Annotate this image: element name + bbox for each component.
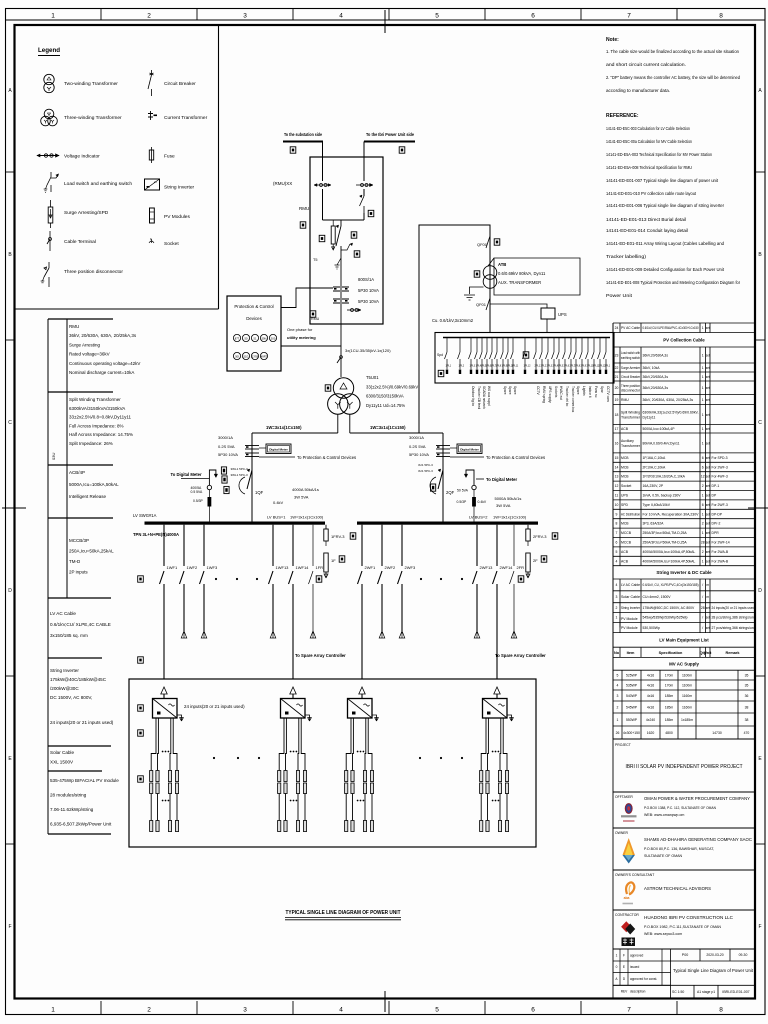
svg-text:Circuit Breaker: Circuit Breaker bbox=[621, 375, 641, 379]
svg-text:50f: 50f bbox=[235, 355, 239, 359]
svg-text:0: 0 bbox=[616, 965, 618, 969]
svg-text:28 pcs/string,386 strings/unit: 28 pcs/string,386 strings/unit bbox=[712, 616, 756, 620]
svg-text:Spare: Spare bbox=[508, 386, 512, 395]
svg-text:/: / bbox=[702, 626, 703, 630]
svg-text:2QF: 2QF bbox=[446, 490, 455, 495]
svg-text:12: 12 bbox=[615, 484, 619, 488]
svg-text:REV: REV bbox=[621, 990, 628, 994]
svg-text:1: 1 bbox=[702, 427, 704, 431]
svg-text:1W=3x1x(1Cx150): 1W=3x1x(1Cx150) bbox=[370, 425, 406, 430]
svg-text:1F: 1F bbox=[331, 558, 336, 563]
svg-text:13: 13 bbox=[615, 475, 619, 479]
svg-text:14141-ED-E01-007 Typical singl: 14141-ED-E01-007 Typical single line dia… bbox=[606, 178, 719, 184]
svg-text:T5: T5 bbox=[313, 258, 317, 262]
svg-text:8: 8 bbox=[719, 1007, 723, 1014]
svg-text:ASTROM TECHNICAL ADVISORS: ASTROM TECHNICAL ADVISORS bbox=[644, 886, 711, 891]
svg-text:PV Collection Cable: PV Collection Cable bbox=[663, 337, 705, 342]
svg-text:4: 4 bbox=[616, 583, 618, 587]
svg-text:2: 2 bbox=[702, 550, 704, 554]
svg-text:14: 14 bbox=[615, 465, 619, 469]
svg-text:80kVA,0.69/0.4kV,Dyn11: 80kVA,0.69/0.4kV,Dyn11 bbox=[643, 441, 680, 445]
svg-text:1WF14: 1WF14 bbox=[296, 565, 310, 570]
svg-text:MCB: MCB bbox=[621, 522, 629, 526]
svg-text:1: 1 bbox=[51, 13, 55, 20]
svg-text:disconnector: disconnector bbox=[621, 389, 641, 393]
svg-text:5000A,Icu=100kA,50kAL: 5000A,Icu=100kA,50kAL bbox=[69, 482, 119, 487]
svg-text:540WP: 540WP bbox=[626, 694, 638, 698]
svg-text:0.5/3P: 0.5/3P bbox=[193, 499, 204, 503]
svg-text:Unit: Unit bbox=[704, 651, 712, 655]
svg-text:2F: 2F bbox=[533, 558, 538, 563]
svg-text:33(±2x2.5%)/0.69kV/0.69kV: 33(±2x2.5%)/0.69kV/0.69kV bbox=[366, 384, 418, 389]
svg-text:1PL1: 1PL1 bbox=[446, 365, 452, 368]
svg-text:2P,10A,C,10kA: 2P,10A,C,10kA bbox=[643, 465, 666, 469]
svg-text:3W 5VA: 3W 5VA bbox=[294, 495, 309, 500]
svg-text:RMU spring: RMU spring bbox=[542, 386, 546, 403]
svg-text:LV BUS=1: LV BUS=1 bbox=[267, 515, 286, 520]
svg-text:4: 4 bbox=[339, 1007, 343, 1014]
svg-text:0.4kV: 0.4kV bbox=[478, 500, 487, 504]
svg-text:Load switch with: Load switch with bbox=[621, 351, 640, 355]
svg-text:PV Modules: PV Modules bbox=[164, 214, 190, 220]
svg-text:0.5 5VA: 0.5 5VA bbox=[191, 490, 204, 494]
svg-text:14141-ED-E01-008 Typical Prote: 14141-ED-E01-008 Typical Protection and … bbox=[606, 280, 740, 286]
svg-text:16A,230V, 2P: 16A,230V, 2P bbox=[643, 484, 664, 488]
svg-text:set: set bbox=[706, 559, 710, 563]
svg-text:WS aux suppl: WS aux suppl bbox=[487, 386, 491, 406]
svg-text:185m: 185m bbox=[665, 694, 674, 698]
svg-text:DP-DP: DP-DP bbox=[712, 512, 723, 516]
svg-text:3: 3 bbox=[243, 13, 247, 20]
svg-text:1PL11: 1PL11 bbox=[512, 365, 519, 368]
svg-text:Spare: Spare bbox=[576, 386, 580, 395]
svg-text:7: 7 bbox=[616, 531, 618, 535]
svg-text:To Spare Array Controller: To Spare Array Controller bbox=[495, 653, 546, 658]
svg-text:CCTV: CCTV bbox=[536, 386, 540, 396]
svg-text:525WP: 525WP bbox=[626, 673, 638, 677]
svg-text:DPR: DPR bbox=[712, 531, 720, 535]
svg-text:ACB: ACB bbox=[621, 427, 629, 431]
svg-text:OWNER: OWNER bbox=[615, 831, 629, 835]
svg-text:19: 19 bbox=[615, 398, 619, 402]
svg-text:1PL2: 1PL2 bbox=[459, 365, 465, 368]
svg-text:UPS supply: UPS supply bbox=[548, 386, 552, 403]
svg-text:set: set bbox=[706, 616, 710, 620]
svg-text:1: 1 bbox=[702, 366, 704, 370]
svg-text:51G: 51G bbox=[244, 355, 249, 359]
svg-text:175kW@40C/185kW@45C: 175kW@40C/185kW@45C bbox=[50, 677, 107, 682]
svg-text:5000A 50kA/1s: 5000A 50kA/1s bbox=[495, 496, 522, 501]
svg-text:545wp/535Wp/530Wp/525Wp: 545wp/535Wp/530Wp/525Wp bbox=[643, 616, 688, 620]
svg-text:2020-03-20: 2020-03-20 bbox=[706, 953, 723, 957]
svg-text:MCCB: MCCB bbox=[621, 531, 632, 535]
svg-text:7: 7 bbox=[627, 1007, 631, 1014]
svg-text:Item: Item bbox=[627, 651, 635, 655]
svg-text:set: set bbox=[706, 353, 710, 357]
svg-text:4x240: 4x240 bbox=[646, 718, 655, 722]
svg-text:59N: 59N bbox=[262, 337, 267, 341]
svg-text:QF01: QF01 bbox=[476, 302, 487, 307]
svg-text:24 inputs(20 or 21 inputs used: 24 inputs(20 or 21 inputs used) bbox=[184, 704, 245, 709]
svg-text:1160m: 1160m bbox=[682, 694, 692, 698]
svg-text:Sockets: Sockets bbox=[554, 386, 558, 398]
svg-text:2: 2 bbox=[147, 1007, 151, 1014]
svg-text:4000A/5000A,Icu=100kA,4P,50kAL: 4000A/5000A,Icu=100kA,4P,50kAL bbox=[643, 559, 696, 563]
svg-text:6: 6 bbox=[616, 541, 618, 545]
svg-text:UPS: UPS bbox=[621, 494, 629, 498]
svg-text:set: set bbox=[706, 512, 710, 516]
svg-text:set: set bbox=[706, 503, 710, 507]
svg-text:D: D bbox=[758, 588, 762, 594]
svg-text:For 2WA-B: For 2WA-B bbox=[712, 550, 729, 554]
svg-text:6: 6 bbox=[702, 465, 704, 469]
svg-text:22: 22 bbox=[615, 366, 619, 370]
svg-text:Voltage Indicator: Voltage Indicator bbox=[64, 154, 100, 160]
svg-text:Half Across Impedance: 14.75%: Half Across Impedance: 14.75% bbox=[69, 432, 133, 437]
svg-text:SPD: SPD bbox=[621, 503, 629, 507]
svg-text:5000A,Icu=100kA,4P: 5000A,Icu=100kA,4P bbox=[643, 427, 676, 431]
svg-text:D: D bbox=[8, 588, 12, 594]
svg-text:12: 12 bbox=[701, 475, 705, 479]
svg-text:set: set bbox=[706, 465, 710, 469]
svg-text:utility metering: utility metering bbox=[287, 335, 316, 340]
svg-text:Surge Arresting/SPD: Surge Arresting/SPD bbox=[64, 210, 109, 216]
svg-text:To Digital Meter: To Digital Meter bbox=[171, 472, 202, 477]
svg-text:One phase for: One phase for bbox=[287, 327, 313, 332]
svg-text:09-30: 09-30 bbox=[739, 953, 748, 957]
svg-text:23: 23 bbox=[615, 353, 619, 357]
svg-text:6: 6 bbox=[702, 503, 704, 507]
svg-text:1FR: 1FR bbox=[316, 565, 324, 570]
svg-text:To Spare Array Controller: To Spare Array Controller bbox=[295, 653, 346, 658]
svg-text:6: 6 bbox=[702, 456, 704, 460]
svg-text:14141-ED-E01-006 Typical singl: 14141-ED-E01-006 Typical single line dia… bbox=[606, 203, 724, 209]
svg-text:4: 4 bbox=[339, 13, 343, 20]
svg-text:1100m: 1100m bbox=[682, 673, 692, 677]
svg-text:550WP: 550WP bbox=[626, 718, 638, 722]
svg-text:7.06-11.62kWp/string: 7.06-11.62kWp/string bbox=[50, 807, 94, 812]
svg-text:1: 1 bbox=[616, 616, 618, 620]
svg-text:LV AC Cable: LV AC Cable bbox=[621, 583, 640, 587]
svg-text:2: 2 bbox=[147, 13, 151, 20]
svg-text:OFFTAKER: OFFTAKER bbox=[615, 795, 633, 799]
svg-text:/200kW@30C: /200kW@30C bbox=[50, 686, 79, 691]
svg-text:3U1 5PC-3: 3U1 5PC-3 bbox=[418, 463, 433, 467]
svg-text:description: description bbox=[630, 990, 646, 994]
svg-text:535-475Wp BIFACIAL PV module: 535-475Wp BIFACIAL PV module bbox=[50, 778, 119, 783]
svg-text:14141-ED-E5C-003 Calculation f: 14141-ED-E5C-003 Calculation for LV Cabl… bbox=[606, 126, 690, 132]
svg-text:set: set bbox=[706, 427, 710, 431]
svg-text:2FRV-3: 2FRV-3 bbox=[533, 534, 547, 539]
svg-text:MCCB/3P: MCCB/3P bbox=[69, 538, 89, 543]
svg-text:Specification: Specification bbox=[659, 651, 683, 655]
svg-text:14141-ED-E01-013 Direct Burial: 14141-ED-E01-013 Direct Burial detail bbox=[606, 217, 686, 223]
svg-text:2WF14: 2WF14 bbox=[500, 565, 514, 570]
svg-text:3: 3 bbox=[617, 694, 619, 698]
svg-text:F: F bbox=[758, 924, 761, 930]
svg-text:Load switch and earthing switc: Load switch and earthing switch bbox=[64, 181, 132, 187]
svg-text:For 4WF-3: For 4WF-3 bbox=[712, 475, 728, 479]
svg-text:535WP: 535WP bbox=[626, 683, 638, 687]
svg-text:1: 1 bbox=[702, 494, 704, 498]
svg-text:14141-ED-E01-014 Conduit layin: 14141-ED-E01-014 Conduit laying detail bbox=[606, 228, 688, 234]
svg-text:5P30 10VA: 5P30 10VA bbox=[358, 288, 379, 293]
svg-text:Typical Single Line Diagram of: Typical Single Line Diagram of Power Uni… bbox=[673, 968, 754, 973]
svg-text:AUX. TRANSFORMER: AUX. TRANSFORMER bbox=[498, 280, 541, 285]
svg-text:0.6/0.69kV 80kVA, Dyn11: 0.6/0.69kV 80kVA, Dyn11 bbox=[498, 271, 546, 276]
svg-text:CU=4mm2, 1500V: CU=4mm2, 1500V bbox=[643, 595, 672, 599]
svg-text:250A/3P,Icu=50kA,TM-D,25A: 250A/3P,Icu=50kA,TM-D,25A bbox=[643, 531, 688, 535]
svg-text:36kV,20/630A,3s: 36kV,20/630A,3s bbox=[643, 375, 669, 379]
svg-text:27 pcs/string,366 strings/unit: 27 pcs/string,366 strings/unit bbox=[712, 626, 756, 630]
svg-text:Socket: Socket bbox=[164, 241, 179, 247]
svg-text:1P/2P,6/10A,16/20A,C,10kA: 1P/2P,6/10A,16/20A,C,10kA bbox=[643, 475, 686, 479]
svg-text:3WL1 5PC-3: 3WL1 5PC-3 bbox=[231, 467, 249, 471]
svg-text:1: 1 bbox=[702, 559, 704, 563]
svg-text:OWNER'S CONSULTANT: OWNER'S CONSULTANT bbox=[615, 873, 654, 877]
svg-text:WEB: www.omanpwp.om: WEB: www.omanpwp.om bbox=[644, 813, 684, 817]
svg-text:Spar: Spar bbox=[600, 386, 604, 394]
svg-text:Fans su: Fans su bbox=[594, 386, 598, 398]
svg-text:Dy11y11 Ud=14.75%: Dy11y11 Ud=14.75% bbox=[366, 403, 405, 408]
svg-text:0.6/1kV,CU/XLPE/SWA/PVC-4Cx300: 0.6/1kV,CU/XLPE/SWA/PVC-4Cx300+1Cx150 bbox=[643, 326, 699, 330]
svg-text:PV AC Cable: PV AC Cable bbox=[621, 326, 640, 330]
svg-text:ACB: ACB bbox=[621, 550, 629, 554]
svg-text:MCB: MCB bbox=[621, 465, 629, 469]
svg-text:800S/1A: 800S/1A bbox=[358, 277, 374, 282]
svg-text:6300/3150/3150kVA: 6300/3150/3150kVA bbox=[366, 394, 404, 399]
svg-text:20: 20 bbox=[615, 386, 619, 390]
svg-text:CONTRACTOR: CONTRACTOR bbox=[615, 913, 639, 917]
svg-text:1P,16A,C,10kA: 1P,16A,C,10kA bbox=[643, 456, 666, 460]
svg-text:7: 7 bbox=[627, 13, 631, 20]
svg-text:For 2WA-B: For 2WA-B bbox=[712, 559, 729, 563]
svg-text:3U1 5PC-3: 3U1 5PC-3 bbox=[418, 469, 433, 473]
svg-text:set: set bbox=[706, 326, 710, 330]
svg-text:1QF: 1QF bbox=[255, 490, 264, 495]
svg-text:35: 35 bbox=[745, 683, 749, 687]
svg-text:36kV, 10kA: 36kV, 10kA bbox=[643, 366, 661, 370]
svg-text:TYPICAL SINGLE LINE DIAGRAM OF: TYPICAL SINGLE LINE DIAGRAM OF POWER UNI… bbox=[286, 910, 401, 916]
svg-text:0.2S 5VA: 0.2S 5VA bbox=[218, 444, 235, 449]
svg-text:1WF1: 1WF1 bbox=[167, 565, 178, 570]
svg-text:RMU: RMU bbox=[299, 206, 309, 211]
svg-text:175kW@50C,DC 1500V, AC 800V: 175kW@50C,DC 1500V, AC 800V bbox=[643, 606, 695, 610]
svg-text:36kV,20/630A,3s: 36kV,20/630A,3s bbox=[643, 353, 669, 357]
svg-text:CCTV cam: CCTV cam bbox=[606, 386, 610, 402]
svg-text:set: set bbox=[706, 494, 710, 498]
svg-text:(RMU)XX: (RMU)XX bbox=[273, 181, 292, 186]
svg-text:RMU: RMU bbox=[69, 324, 79, 329]
svg-text:185m: 185m bbox=[665, 705, 674, 709]
svg-text:Auxiliary: Auxiliary bbox=[621, 439, 634, 443]
svg-text:Nominal discharge current=10kA: Nominal discharge current=10kA bbox=[69, 370, 134, 375]
svg-text:170m: 170m bbox=[665, 683, 674, 687]
svg-text:Rated voltage=36kV: Rated voltage=36kV bbox=[69, 352, 110, 357]
svg-text:1160m: 1160m bbox=[682, 705, 692, 709]
svg-text:5: 5 bbox=[616, 550, 618, 554]
svg-text:Protection & Control: Protection & Control bbox=[234, 304, 273, 309]
svg-text:Tracker ctrl bo: Tracker ctrl bo bbox=[565, 386, 569, 406]
svg-text:Split Impedance: 26%: Split Impedance: 26% bbox=[69, 441, 113, 446]
svg-text:Split Winding: Split Winding bbox=[621, 411, 640, 415]
svg-text:8: 8 bbox=[616, 522, 618, 526]
svg-text:set: set bbox=[706, 398, 710, 402]
svg-text:6300kVA,33(1±2x2.5%)/0.69/0.69: 6300kVA,33(1±2x2.5%)/0.69/0.69kV, bbox=[643, 411, 699, 415]
svg-text:MCB: MCB bbox=[621, 475, 629, 479]
svg-text:Socket: Socket bbox=[621, 484, 631, 488]
svg-text:2WF2: 2WF2 bbox=[385, 565, 396, 570]
svg-text:4000A 50kA/1s: 4000A 50kA/1s bbox=[292, 487, 319, 492]
svg-text:Tracker CB feed: Tracker CB feed bbox=[477, 386, 481, 409]
svg-text:SCADA network: SCADA network bbox=[482, 386, 486, 409]
svg-text:A1 stage p1: A1 stage p1 bbox=[697, 990, 715, 994]
svg-text:F: F bbox=[623, 954, 625, 958]
svg-text:Full Across Impedance: 8%: Full Across Impedance: 8% bbox=[69, 423, 124, 428]
svg-text:set: set bbox=[706, 550, 710, 554]
svg-text:P.O.BOX 1388, P.C. 112, SULTAN: P.O.BOX 1388, P.C. 112, SULTANATE OF OMA… bbox=[644, 806, 716, 810]
svg-text:P.O.BOX 80,P.C. 136, BAWSHAR,: P.O.BOX 80,P.C. 136, BAWSHAR, MUSCAT, bbox=[644, 847, 714, 851]
svg-text:14141-ED-E01-009 Detailed Conf: 14141-ED-E01-009 Detailed Configuration … bbox=[606, 267, 725, 273]
svg-text:SC 1:50: SC 1:50 bbox=[672, 990, 684, 994]
svg-text:1WF13: 1WF13 bbox=[276, 565, 290, 570]
svg-text:3W 5VA: 3W 5VA bbox=[496, 503, 511, 508]
svg-text:Spd: Spd bbox=[437, 353, 443, 357]
svg-text:LV BUS=2: LV BUS=2 bbox=[469, 515, 488, 520]
svg-text:Three-winding Transformer: Three-winding Transformer bbox=[64, 115, 122, 121]
svg-text:5: 5 bbox=[435, 13, 439, 20]
svg-text:1PL12: 1PL12 bbox=[524, 365, 532, 368]
svg-text:Current Transformer: Current Transformer bbox=[164, 115, 208, 121]
svg-text:Transformer: Transformer bbox=[621, 444, 641, 448]
svg-text:PV Module: PV Module bbox=[621, 626, 638, 630]
svg-text:1: 1 bbox=[702, 413, 704, 417]
svg-text:9: 9 bbox=[616, 512, 618, 516]
svg-text:Transformer: Transformer bbox=[621, 415, 641, 419]
svg-text:String Inverter: String Inverter bbox=[50, 668, 79, 673]
svg-text:1: 1 bbox=[702, 531, 704, 535]
svg-text:5P30 10VA: 5P30 10VA bbox=[409, 452, 429, 457]
svg-text:36: 36 bbox=[745, 694, 749, 698]
svg-text:Digital Meter: Digital Meter bbox=[269, 448, 288, 452]
svg-text:P00: P00 bbox=[682, 953, 688, 957]
svg-text:87T: 87T bbox=[235, 337, 240, 341]
svg-text:4x16: 4x16 bbox=[647, 694, 654, 698]
svg-text:Three position disconnector: Three position disconnector bbox=[64, 269, 123, 275]
svg-text:24 inputs(20 or 21 inputs used: 24 inputs(20 or 21 inputs used) bbox=[712, 606, 756, 610]
svg-text:2WF13: 2WF13 bbox=[480, 565, 494, 570]
svg-text:1100m: 1100m bbox=[682, 683, 692, 687]
svg-text:4: 4 bbox=[617, 683, 619, 687]
svg-text:ATB: ATB bbox=[498, 262, 506, 267]
svg-text:14141-ED-E5C-00a Calculation f: 14141-ED-E5C-00a Calculation for MV Cabl… bbox=[606, 139, 692, 145]
svg-text:0.5/3P: 0.5/3P bbox=[457, 500, 468, 504]
svg-text:185m: 185m bbox=[665, 718, 674, 722]
svg-text:C: C bbox=[8, 420, 12, 426]
svg-text:Continuous operating voltage=4: Continuous operating voltage=42kV bbox=[69, 361, 140, 366]
svg-text:530,500Wp: 530,500Wp bbox=[643, 626, 660, 630]
svg-text:Outdoor ltg bo: Outdoor ltg bo bbox=[471, 386, 475, 406]
svg-text:Digital Meter: Digital Meter bbox=[460, 448, 479, 452]
svg-text:AC Distribution: AC Distribution bbox=[621, 512, 640, 516]
svg-text:set: set bbox=[706, 375, 710, 379]
svg-text:1WF3: 1WF3 bbox=[207, 565, 218, 570]
svg-text:Intelligent Release: Intelligent Release bbox=[69, 494, 107, 499]
svg-text:5P30 10VA: 5P30 10VA bbox=[358, 299, 379, 304]
svg-text:XXL 1500V: XXL 1500V bbox=[50, 760, 74, 765]
svg-text:1. The cable size would be fin: 1. The cable size would be finalized acc… bbox=[606, 49, 739, 55]
svg-text:1: 1 bbox=[702, 512, 704, 516]
svg-text:To Digital Meter: To Digital Meter bbox=[486, 477, 517, 482]
svg-text:2: 2 bbox=[702, 522, 704, 526]
svg-text:0.4kV: 0.4kV bbox=[273, 500, 284, 505]
svg-text:set: set bbox=[706, 413, 710, 417]
svg-text:Cable Terminal: Cable Terminal bbox=[64, 239, 96, 245]
svg-text:2. "DP" battery means the cont: 2. "DP" battery means the controller AC … bbox=[606, 75, 740, 81]
svg-text:Surge Arrester: Surge Arrester bbox=[621, 366, 641, 370]
svg-text:3x(1CU-35/35)kV-1x(120): 3x(1CU-35/35)kV-1x(120) bbox=[345, 348, 391, 353]
svg-text:Lightin: Lightin bbox=[582, 386, 586, 396]
svg-text:ACB: ACB bbox=[621, 559, 629, 563]
svg-text:1: 1 bbox=[702, 375, 704, 379]
svg-text:To the Ibri Power Unit side: To the Ibri Power Unit side bbox=[366, 132, 414, 137]
svg-text:1FRV-3: 1FRV-3 bbox=[331, 534, 345, 539]
svg-text:1: 1 bbox=[51, 1007, 55, 1014]
svg-text:For 2WF-3: For 2WF-3 bbox=[712, 465, 728, 469]
svg-text:38: 38 bbox=[745, 705, 749, 709]
svg-text:3: 3 bbox=[243, 1007, 247, 1014]
svg-text:approved for const.: approved for const. bbox=[630, 977, 657, 981]
svg-text:ACB/4P: ACB/4P bbox=[69, 470, 85, 475]
svg-text:10: 10 bbox=[615, 503, 619, 507]
svg-text:m: m bbox=[706, 595, 709, 599]
svg-text:6300kVA/3150kVA/3150kVA: 6300kVA/3150kVA/3150kVA bbox=[69, 406, 125, 411]
svg-text:18: 18 bbox=[615, 413, 619, 417]
svg-text:28: 28 bbox=[701, 606, 705, 610]
svg-text:2: 2 bbox=[702, 484, 704, 488]
svg-text:4000A/5000A,Icu=100kA,4P,50kAL: 4000A/5000A,Icu=100kA,4P,50kAL bbox=[643, 550, 696, 554]
svg-text:set: set bbox=[706, 606, 710, 610]
svg-text:To Protection & Control Device: To Protection & Control Devices bbox=[297, 455, 356, 460]
svg-text:Type II,40kA/10kV: Type II,40kA/10kV bbox=[643, 503, 671, 507]
svg-text:Spare: Spare bbox=[513, 386, 517, 395]
svg-text:REFERENCE:: REFERENCE: bbox=[606, 113, 639, 119]
svg-text:4800: 4800 bbox=[665, 731, 673, 735]
svg-text:issued: issued bbox=[630, 965, 639, 969]
svg-text:2: 2 bbox=[616, 606, 618, 610]
svg-text:3U0: 3U0 bbox=[271, 337, 276, 341]
svg-text:Spare: Spare bbox=[503, 386, 507, 395]
svg-text:DP: DP bbox=[712, 494, 717, 498]
svg-text:3P3, 63A/32A: 3P3, 63A/32A bbox=[643, 522, 665, 526]
svg-text:1: 1 bbox=[702, 386, 704, 390]
svg-text:1W=3x1x(1Cx100): 1W=3x1x(1Cx100) bbox=[493, 515, 527, 520]
svg-text:38: 38 bbox=[745, 718, 749, 722]
svg-text:T5U01: T5U01 bbox=[366, 375, 379, 380]
svg-text:17: 17 bbox=[615, 427, 619, 431]
svg-text:/: / bbox=[702, 616, 703, 620]
svg-text:IBRI-ED-E01-007: IBRI-ED-E01-007 bbox=[722, 990, 749, 994]
svg-text:0.2S 5VA: 0.2S 5VA bbox=[409, 444, 426, 449]
svg-text:P.O.BOX 1982, P.C.111,SULTANAT: P.O.BOX 1982, P.C.111,SULTANATE OF OMAN bbox=[644, 925, 721, 929]
svg-text:14730: 14730 bbox=[712, 731, 722, 735]
svg-text:To Protection & Control Device: To Protection & Control Devices bbox=[486, 455, 545, 460]
svg-text:24: 24 bbox=[615, 326, 619, 330]
svg-text:SULTANATE OF OMAN: SULTANATE OF OMAN bbox=[644, 854, 683, 858]
svg-text:MV AC Supply: MV AC Supply bbox=[669, 661, 699, 666]
svg-text:aba: aba bbox=[624, 896, 630, 900]
svg-text:545WP: 545WP bbox=[626, 705, 638, 709]
